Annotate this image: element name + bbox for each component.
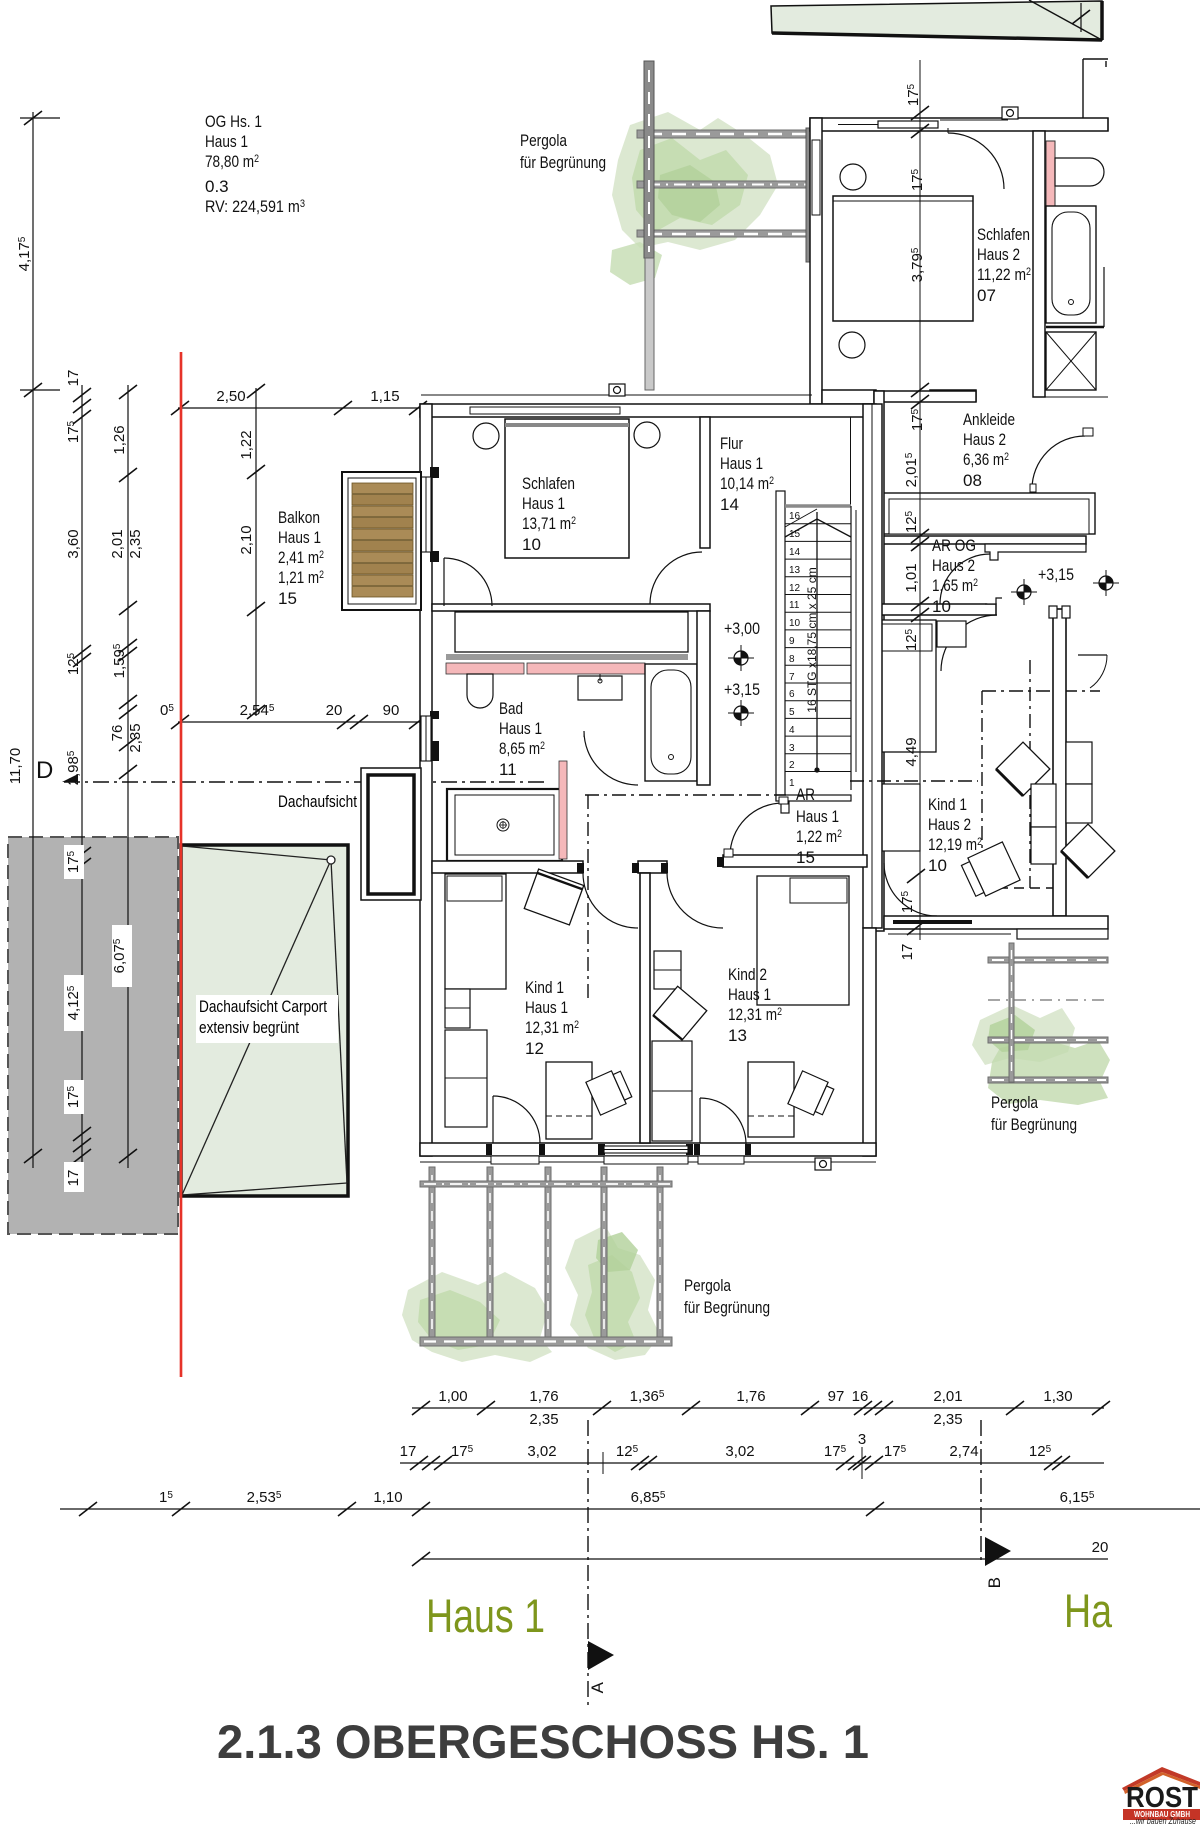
AR door arc: [730, 803, 783, 856]
svg-text:Pergola: Pergola: [684, 1276, 731, 1295]
door opening top: [940, 119, 1008, 121]
svg-text:17: 17: [65, 1170, 82, 1187]
[o] symbols: [609, 107, 1018, 1170]
kind1 h2 door bottom left: [884, 863, 937, 916]
counter gray bar: [446, 654, 688, 660]
red line: [180, 352, 182, 1377]
svg-text:3: 3: [858, 1431, 866, 1448]
svg-text:Flur: Flur: [720, 434, 743, 453]
svg-text:Haus 2: Haus 2: [928, 815, 971, 834]
svg-text:Schlafen: Schlafen: [522, 474, 575, 493]
svg-text:90: 90: [383, 702, 400, 719]
furniture rects right side: [1031, 784, 1056, 827]
section verticals: [587, 1420, 589, 1705]
row2 y1463: [400, 1462, 1104, 1464]
svg-text:10: 10: [928, 856, 947, 875]
vertical dim line haus2: [919, 60, 921, 940]
svg-text:Haus 1: Haus 1: [426, 1589, 545, 1642]
svg-text:10: 10: [789, 618, 801, 629]
svg-text:1,22 m2: 1,22 m2: [796, 827, 842, 846]
svg-text:4: 4: [789, 725, 795, 736]
gray roof area (Dachaufsicht): [8, 837, 178, 1234]
schlafen h1 bed: [505, 419, 629, 558]
svg-text:für Begrünung: für Begrünung: [684, 1298, 770, 1317]
svg-text:Haus 1: Haus 1: [278, 528, 321, 547]
west wall Haus 2 (x 810-822): [810, 118, 822, 404]
svg-text:11,70: 11,70: [7, 748, 24, 784]
kind2 furniture: [757, 876, 849, 1005]
row1 y1408: [412, 1407, 1104, 1409]
svg-text:2,01: 2,01: [933, 1388, 962, 1405]
schlafen door: [443, 558, 445, 606]
svg-text:Kind 1: Kind 1: [928, 795, 967, 814]
svg-text:5: 5: [789, 707, 795, 718]
doors bottom wall: [492, 1096, 494, 1143]
sills below bottom wall: [491, 1156, 539, 1164]
bath h2: tub: [1046, 206, 1096, 323]
svg-text:3,60: 3,60: [65, 529, 82, 558]
Ankleide top wall: [874, 391, 976, 402]
svg-text:13: 13: [728, 1026, 747, 1045]
svg-text:3,02: 3,02: [527, 1443, 556, 1460]
svg-text:3: 3: [789, 743, 795, 754]
wall below AR OG: [874, 604, 996, 615]
wardrobe row in bad: [455, 612, 688, 652]
svg-text:11: 11: [499, 760, 517, 779]
top pergola right post: [806, 128, 813, 262]
window left wall bad: [421, 716, 431, 761]
svg-text:+3,15: +3,15: [724, 680, 760, 699]
bad/kind1 wall: [432, 861, 583, 873]
svg-text:17: 17: [899, 944, 916, 961]
svg-text:8,65 m2: 8,65 m2: [499, 739, 545, 758]
schlafen/flur partition: [700, 417, 710, 548]
svg-text:Ankleide: Ankleide: [963, 410, 1015, 429]
svg-text:14: 14: [789, 547, 801, 558]
kind1 h2 chair rotated bottom-left: [960, 842, 1020, 900]
svg-text:7: 7: [789, 672, 795, 683]
door right of partition: [1078, 654, 1107, 656]
svg-text:12: 12: [789, 583, 801, 594]
bottom wall haus2: [884, 916, 1108, 929]
svg-text:16: 16: [789, 511, 801, 522]
svg-text:1,22: 1,22: [238, 430, 255, 459]
svg-text:6: 6: [789, 689, 795, 700]
Dachaufsicht label: [196, 790, 366, 1043]
svg-text:Schlafen: Schlafen: [977, 225, 1030, 244]
svg-text:Kind 1: Kind 1: [525, 978, 564, 997]
green roof trapezoid top right: [771, 1, 1102, 40]
roof edge thin line above top wall: [421, 394, 812, 396]
schlafen bottom wall: [432, 604, 710, 611]
stair bottom wall: [776, 795, 851, 801]
balkon: [342, 472, 421, 610]
svg-text:12,19 m2: 12,19 m2: [928, 835, 982, 854]
svg-text:Bad: Bad: [499, 699, 523, 718]
kind partition wall: [640, 873, 650, 1143]
A arrow: [588, 1641, 614, 1670]
svg-text:2.1.3 OBERGESCHOSS HS. 1: 2.1.3 OBERGESCHOSS HS. 1: [217, 1715, 869, 1768]
top pergola vertical post: [644, 61, 654, 258]
level symbols flur: [728, 645, 754, 671]
svg-text:Dachaufsicht Carport: Dachaufsicht Carport: [199, 997, 327, 1016]
svg-text:2,35: 2,35: [529, 1411, 558, 1428]
svg-text:2,35: 2,35: [933, 1411, 962, 1428]
small structure below trapezoid: [1082, 59, 1084, 118]
partition wall right x1053: [1053, 609, 1066, 916]
svg-text:3,02: 3,02: [725, 1443, 754, 1460]
svg-text:B: B: [985, 1577, 1004, 1588]
svg-text:15: 15: [278, 589, 297, 608]
svg-text:12,31 m2: 12,31 m2: [525, 1018, 579, 1037]
svg-text:2,74: 2,74: [949, 1443, 978, 1460]
schlafen h2 bed: [833, 196, 973, 321]
bath h2: sink: [1055, 158, 1104, 186]
top dimension 2,50 / 1,15: [178, 407, 428, 409]
dims vertical in plan: [899, 83, 926, 960]
dimension line x=256 (1,22 / 2,10): [255, 388, 257, 716]
window in top wall: [878, 121, 938, 128]
junction double wall haus1/haus2: [863, 404, 882, 928]
stairs: [776, 491, 785, 800]
svg-text:...wir bauen Zuhause: ...wir bauen Zuhause: [1130, 1816, 1196, 1825]
svg-text:8: 8: [789, 654, 795, 665]
window left wall schlafen: [421, 477, 431, 552]
svg-text:für Begrünung: für Begrünung: [991, 1115, 1077, 1134]
pink wall pads haus2 bath: [1046, 141, 1055, 206]
wardrobe Ankleide: [883, 493, 1095, 534]
ROST logo: [1122, 1767, 1200, 1791]
pink wall right of shower: [559, 761, 567, 859]
window in west wall: [812, 140, 820, 215]
svg-text:1,00: 1,00: [438, 1388, 467, 1405]
bath h2: washer: [1046, 332, 1096, 390]
carport node + diagonals: [182, 846, 331, 860]
sink: [578, 676, 622, 700]
svg-text:1,65 m2: 1,65 m2: [932, 576, 978, 595]
kind1 h2 dash-dot rect: [982, 660, 1100, 888]
black wall jambs left wall: [430, 467, 439, 761]
svg-text:für Begrünung: für Begrünung: [520, 153, 606, 172]
svg-text:12,31 m2: 12,31 m2: [728, 1005, 782, 1024]
row4 y1559: [421, 1558, 1108, 1560]
row3 y1509: [60, 1508, 1200, 1510]
bad door arc: [584, 731, 638, 785]
svg-text:2,50: 2,50: [216, 388, 245, 405]
svg-text:1,10: 1,10: [373, 1489, 402, 1506]
svg-text:A: A: [588, 1681, 607, 1693]
placeholder groups: [7, 0, 1108, 1377]
roof element rect left of bad: [361, 768, 421, 900]
svg-text:1: 1: [789, 778, 795, 789]
svg-text:10: 10: [522, 535, 541, 554]
corridor bottom wall (kind2 top): [723, 855, 867, 867]
svg-text:13: 13: [789, 565, 801, 576]
svg-text:1,26: 1,26: [111, 425, 128, 454]
bathtub: [645, 664, 697, 781]
svg-text:6,36 m2: 6,36 m2: [963, 450, 1009, 469]
svg-text:Haus 2: Haus 2: [932, 556, 975, 575]
svg-text:Pergola: Pergola: [520, 131, 567, 150]
svg-text:08: 08: [963, 471, 982, 490]
carport green roof: [181, 845, 348, 1196]
svg-text:Haus 2: Haus 2: [963, 430, 1006, 449]
svg-text:Dachaufsicht: Dachaufsicht: [278, 792, 357, 811]
svg-text:Haus 1: Haus 1: [205, 132, 248, 151]
dimension 0-5 / 2,54-5 / 20 / 90: [178, 721, 432, 723]
svg-text:2,10: 2,10: [238, 525, 255, 554]
dimension line left outer 4,17-5 / 11,70: [32, 112, 34, 1168]
top pergola greenery blobs: [612, 112, 778, 250]
svg-text:17: 17: [400, 1443, 417, 1460]
svg-text:Haus 1: Haus 1: [728, 985, 771, 1004]
svg-text:1,76: 1,76: [529, 1388, 558, 1405]
black door posts: [486, 857, 751, 1155]
svg-text:2,01: 2,01: [109, 529, 126, 558]
svg-text:20: 20: [1092, 1539, 1109, 1556]
svg-text:9: 9: [789, 636, 795, 647]
dimension chain 2 x=82: [81, 385, 83, 1168]
AR OG T wall: [985, 544, 1086, 560]
svg-text:D: D: [36, 757, 53, 784]
svg-text:1,21 m2: 1,21 m2: [278, 568, 324, 587]
roof diagonal: [1029, 0, 1100, 39]
top pergola beams: [637, 130, 812, 237]
svg-text:1,01: 1,01: [903, 563, 920, 592]
svg-text:15: 15: [796, 848, 815, 867]
svg-text:16 STG x18,75 cm x 25 cm: 16 STG x18,75 cm x 25 cm: [805, 567, 819, 712]
svg-text:Haus 1: Haus 1: [525, 998, 568, 1017]
svg-text:78,80 m2: 78,80 m2: [205, 152, 259, 171]
toilet: [467, 674, 493, 708]
svg-text:AR: AR: [796, 785, 815, 804]
svg-text:Haus 1: Haus 1: [720, 454, 763, 473]
svg-text:10: 10: [932, 597, 951, 616]
window in top wall: [470, 407, 620, 414]
svg-text:OG Hs. 1: OG Hs. 1: [205, 112, 262, 131]
svg-text:13,71 m2: 13,71 m2: [522, 514, 576, 533]
svg-text:extensiv begrünt: extensiv begrünt: [199, 1018, 299, 1037]
kind2 door arc: [667, 873, 723, 928]
svg-text:2,35: 2,35: [127, 723, 144, 752]
right pergola greenery: [972, 1005, 1075, 1065]
door arc into kind1 h2: [941, 615, 997, 671]
kind1 h2 desk lower left: [877, 784, 920, 851]
svg-text:10,14 m2: 10,14 m2: [720, 474, 774, 493]
svg-text:2,41 m2: 2,41 m2: [278, 548, 324, 567]
svg-text:97: 97: [828, 1388, 845, 1405]
svg-text:Haus 2: Haus 2: [977, 245, 1020, 264]
svg-text:AR OG: AR OG: [932, 536, 976, 555]
west wall haus2 mid: [874, 391, 884, 931]
pink bands: [446, 663, 524, 674]
svg-text:17: 17: [65, 370, 82, 387]
top wall Haus 2: [810, 118, 1108, 131]
stair numbers: [789, 511, 801, 789]
kind1 h2 bed along west wall: [877, 620, 936, 752]
Ankleide door arc: [1032, 436, 1085, 489]
svg-text:Balkon: Balkon: [278, 508, 320, 527]
svg-text:07: 07: [977, 286, 996, 305]
top wall: [420, 404, 876, 417]
kind1 furniture: [445, 874, 506, 989]
svg-text:20: 20: [326, 702, 343, 719]
svg-text:14: 14: [720, 495, 739, 514]
svg-text:Haus 1: Haus 1: [499, 719, 542, 738]
svg-text:1,30: 1,30: [1043, 1388, 1072, 1405]
svg-text:2,35: 2,35: [127, 529, 144, 558]
svg-text:0.3: 0.3: [205, 177, 229, 196]
bottom wall: [420, 1143, 876, 1156]
svg-text:76: 76: [109, 725, 126, 742]
svg-text:15: 15: [789, 529, 801, 540]
level symbols: [1011, 579, 1037, 605]
svg-text:1,15: 1,15: [370, 388, 399, 405]
svg-text:11: 11: [789, 600, 800, 611]
left exterior wall: [420, 404, 432, 1156]
AR OG door arc: [940, 554, 990, 604]
svg-text:16: 16: [852, 1388, 869, 1405]
dimension chain 3 x=128: [127, 385, 129, 1168]
window bottom wall: [604, 1146, 688, 1153]
right end walls: [1107, 118, 1109, 131]
svg-text:+3,00: +3,00: [724, 619, 760, 638]
shower: [447, 789, 562, 861]
wall right of schlafen h2: [1033, 131, 1045, 397]
flur-schlafen door arc: [650, 552, 702, 604]
svg-text:1,76: 1,76: [736, 1388, 765, 1405]
svg-text:Pergola: Pergola: [991, 1093, 1038, 1112]
svg-text:4,49: 4,49: [903, 737, 920, 766]
svg-text:+3,15: +3,15: [1038, 565, 1074, 584]
B arrow: [985, 1537, 1011, 1566]
svg-text:Kind 2: Kind 2: [728, 965, 767, 984]
svg-text:2: 2: [789, 760, 795, 771]
kind1 door arc at partition: [583, 873, 638, 928]
red boundary line: [180, 352, 182, 1377]
svg-text:11,22 m2: 11,22 m2: [977, 265, 1031, 284]
svg-text:Haus 1: Haus 1: [796, 807, 839, 826]
wall right of tub: [697, 611, 710, 785]
bottom pergola: [402, 1272, 552, 1362]
schlafen h2 bottom wall: [822, 390, 876, 404]
wall below wardrobe: [874, 536, 1086, 544]
kind1 h2 desk (rotated): [996, 742, 1050, 796]
svg-text:12: 12: [525, 1039, 544, 1058]
dash-dot lines in building: [585, 794, 786, 796]
right pergola beams: [988, 957, 1108, 1083]
svg-text:Haus 1: Haus 1: [522, 494, 565, 513]
svg-text:RV: 224,591 m3: RV: 224,591 m3: [205, 197, 305, 216]
